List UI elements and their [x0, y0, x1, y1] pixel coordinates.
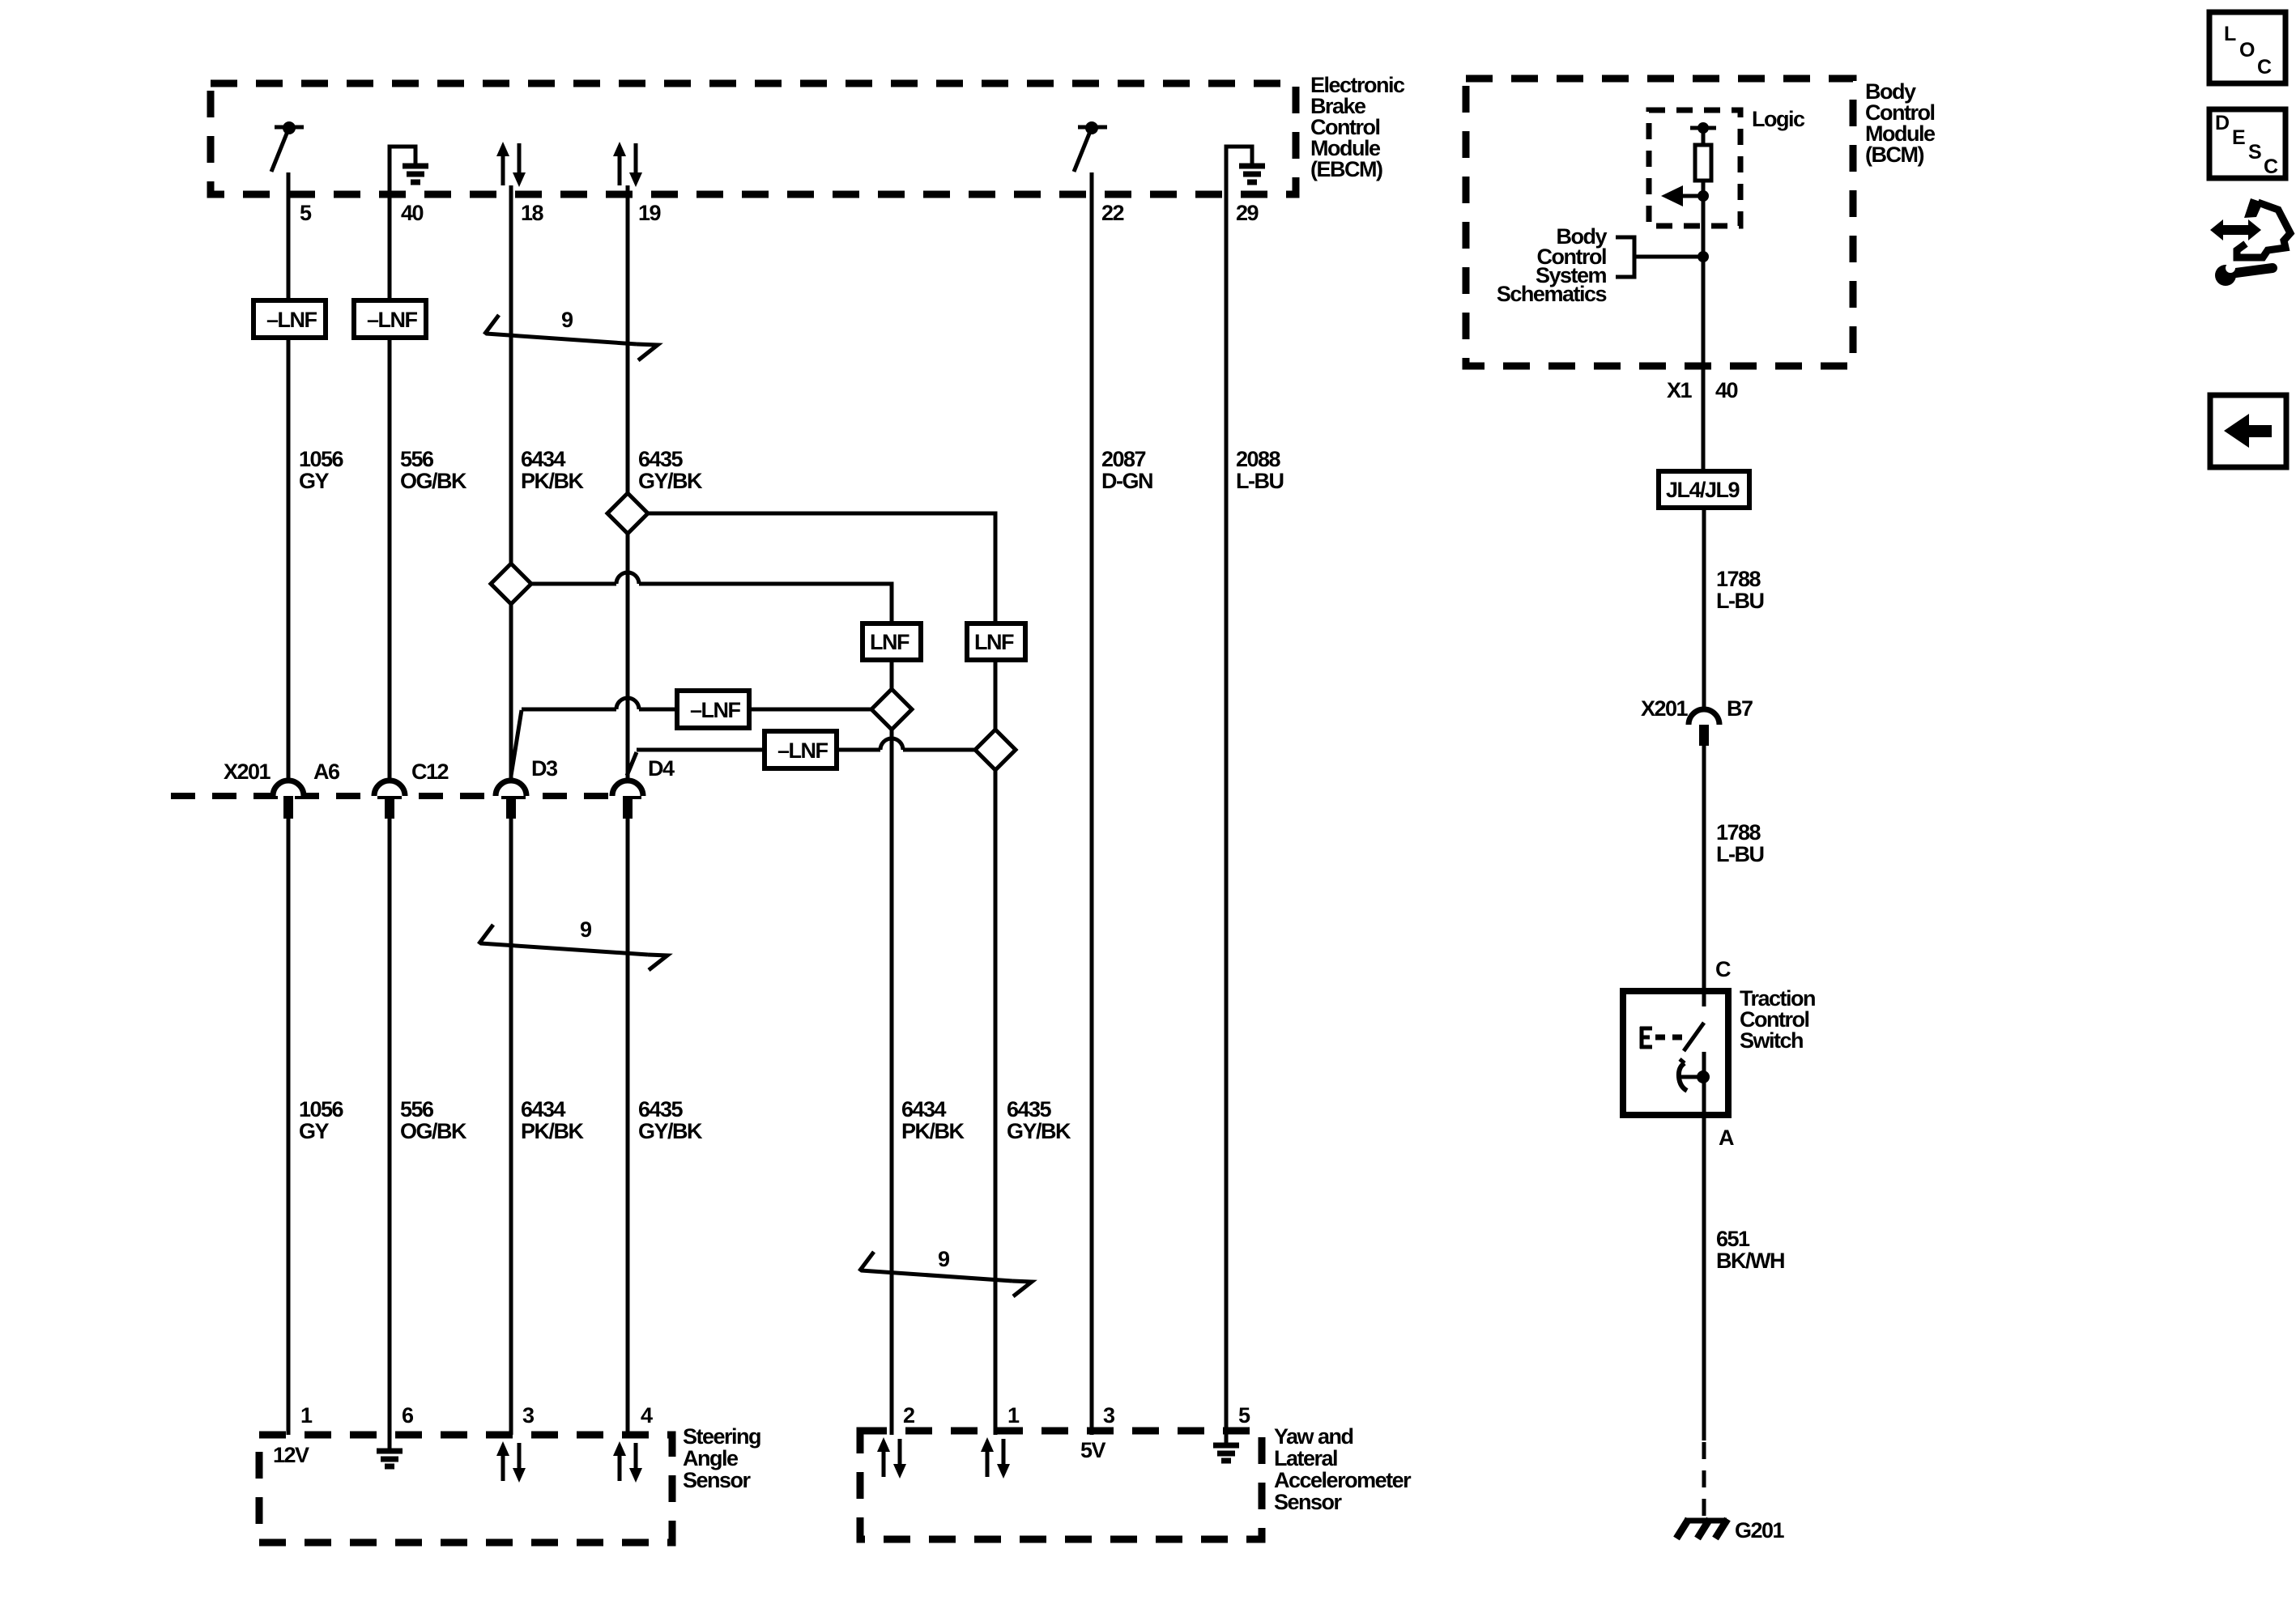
connector X1 pin 40 labels	[1667, 378, 1738, 402]
svg-text:29: 29	[1236, 201, 1259, 225]
bidirectional signal arrows EBCM pin 19	[613, 142, 642, 187]
svg-text:651: 651	[1716, 1227, 1750, 1251]
wire label 6434 PK/BK (yaw branch)	[901, 1097, 965, 1143]
wire label 6435 GY/BK (lower)	[638, 1097, 703, 1143]
bidirectional signal arrows steering pin 3	[496, 1441, 526, 1483]
svg-text:G201: G201	[1735, 1518, 1785, 1543]
wire left branch down to yaw sensor pin 2	[890, 660, 894, 1435]
ground steering pin 6	[377, 1451, 403, 1466]
svg-text:40: 40	[1715, 378, 1738, 402]
svg-text:9: 9	[938, 1247, 950, 1271]
svg-text:C: C	[1715, 957, 1731, 981]
svg-text:D: D	[2215, 112, 2230, 134]
svg-text:X201: X201	[1641, 696, 1689, 721]
ground EBCM pin 29	[1226, 147, 1265, 194]
wire right branch down to yaw sensor pin 1	[994, 660, 998, 1435]
arrow output (logic)	[1661, 185, 1709, 206]
node (logic supply bar)	[1690, 122, 1716, 134]
svg-text:1056: 1056	[299, 447, 344, 471]
svg-text:S: S	[2248, 141, 2262, 164]
splice diamond left (wire to yaw 2)	[871, 689, 912, 730]
wire label 1788 L-BU (lower)	[1716, 820, 1763, 866]
svg-text:–LNF: –LNF	[367, 308, 418, 332]
switch EBCM pin 5	[271, 121, 304, 172]
icon LOC	[2209, 12, 2285, 83]
svg-text:L-BU: L-BU	[1236, 469, 1283, 493]
wire label 6434 PK/BK (top)	[521, 447, 585, 493]
svg-text:6435: 6435	[638, 447, 684, 471]
svg-text:Sensor: Sensor	[1274, 1490, 1343, 1514]
svg-text:LNF: LNF	[870, 630, 909, 654]
svg-text:GY: GY	[299, 469, 330, 493]
module box EBCM (Electronic Brake Control Module)	[211, 73, 1405, 194]
svg-text:1788: 1788	[1716, 567, 1761, 591]
svg-text:5: 5	[1238, 1403, 1250, 1428]
wire label 2087 D-GN	[1101, 447, 1152, 493]
wire 6435 GY/BK (EBCM 19 to X201 D4)	[626, 185, 630, 781]
icon DESC	[2209, 109, 2285, 178]
wire label 651 BK/WH	[1716, 1227, 1784, 1273]
icon back arrow	[2210, 395, 2286, 467]
svg-text:2088: 2088	[1236, 447, 1281, 471]
svg-text:PK/BK: PK/BK	[521, 469, 585, 493]
splice diamond right (wire to yaw 1)	[975, 730, 1016, 770]
svg-text:19: 19	[638, 201, 662, 225]
wire 2087 D-GN (EBCM 22 to yaw sensor 3)	[1090, 172, 1094, 1435]
wire branch 6435 (splice to right LNF column)	[645, 513, 995, 623]
svg-text:9: 9	[561, 308, 573, 332]
svg-text:22: 22	[1101, 201, 1124, 225]
svg-text:Schematics: Schematics	[1497, 282, 1607, 306]
connector X201 A6	[273, 760, 340, 819]
svg-text:6434: 6434	[521, 1097, 566, 1121]
bidirectional signal arrows EBCM pin 18	[496, 142, 526, 187]
node (junction to body control system schematics)	[1698, 251, 1709, 262]
connector X201 B7	[1641, 696, 1753, 746]
wire label 1056 GY (lower)	[299, 1097, 344, 1143]
svg-text:E: E	[2232, 126, 2246, 149]
svg-text:1056: 1056	[299, 1097, 344, 1121]
wire 1056 GY (X201 A6 to steering sensor 1)	[287, 819, 291, 1435]
wire (branch to body control system schematics)	[1634, 255, 1703, 259]
wire label 6435 GY/BK (yaw branch)	[1007, 1097, 1071, 1143]
resistor (BCM logic pull-up)	[1695, 145, 1711, 181]
svg-text:JL4/JL9: JL4/JL9	[1666, 478, 1740, 502]
connector X201 D4	[612, 756, 675, 819]
svg-text:4: 4	[641, 1403, 653, 1428]
option box JL4/JL9	[1659, 471, 1749, 508]
switch contact (traction control switch)	[1679, 1059, 1710, 1091]
svg-text:Sensor: Sensor	[683, 1468, 752, 1492]
wire D3 branch (slant + horizontal through -LNF to left diamond)	[511, 698, 873, 776]
wire label 556 OG/BK (lower)	[400, 1097, 467, 1143]
wire 6434 PK/BK (EBCM 18 to X201 D3)	[509, 185, 513, 781]
svg-text:2087: 2087	[1101, 447, 1146, 471]
svg-text:556: 556	[400, 447, 434, 471]
svg-text:L-BU: L-BU	[1716, 842, 1763, 866]
wire label 1788 L-BU (upper)	[1716, 567, 1763, 613]
wire 1788 L-BU (X201 B7 to traction control switch C)	[1702, 746, 1706, 1006]
ground EBCM pin 40	[390, 147, 428, 194]
svg-text:LNF: LNF	[974, 630, 1014, 654]
svg-text:D-GN: D-GN	[1101, 469, 1152, 493]
svg-text:A: A	[1719, 1126, 1734, 1150]
bidirectional signal arrows yaw pin 2	[877, 1437, 906, 1479]
svg-text:GY/BK: GY/BK	[638, 1119, 703, 1143]
svg-text:GY: GY	[299, 1119, 330, 1143]
wire 6435 GY/BK (X201 D4 to steering sensor 4)	[626, 819, 630, 1435]
bus marker 9 (wires 6434/6435 top)	[484, 308, 658, 360]
svg-text:(BCM): (BCM)	[1865, 143, 1923, 167]
svg-text:556: 556	[400, 1097, 434, 1121]
svg-text:C12: C12	[411, 760, 449, 784]
wire 6434 PK/BK (X201 D3 to steering sensor 3)	[509, 819, 513, 1435]
option box -LNF (D3 branch)	[677, 691, 749, 728]
wire label 6434 PK/BK (lower)	[521, 1097, 585, 1143]
wire 556 OG/BK (EBCM 40 to X201 C12)	[388, 162, 392, 781]
svg-text:O: O	[2239, 39, 2255, 62]
bus marker 9 (wires 6434/6435 middle)	[479, 917, 667, 970]
svg-text:6435: 6435	[638, 1097, 684, 1121]
svg-text:1: 1	[1007, 1403, 1020, 1428]
svg-text:–LNF: –LNF	[777, 738, 829, 763]
switch actuator E with dashed link	[1640, 1027, 1682, 1049]
wire 1056 GY (EBCM 5 to X201 A6)	[287, 172, 291, 781]
bidirectional signal arrows steering pin 4	[613, 1441, 642, 1483]
svg-text:BK/WH: BK/WH	[1716, 1249, 1784, 1273]
svg-text:C: C	[2264, 155, 2278, 178]
ground G201	[1676, 1518, 1785, 1543]
svg-text:D4: D4	[648, 756, 675, 781]
svg-text:L: L	[2224, 23, 2236, 45]
wire 1788 L-BU (logic to X1-40)	[1702, 181, 1706, 471]
svg-text:–LNF: –LNF	[266, 308, 317, 332]
wire label 1056 GY (top)	[299, 447, 344, 493]
svg-text:1788: 1788	[1716, 820, 1761, 845]
svg-text:6434: 6434	[901, 1097, 947, 1121]
svg-text:X201: X201	[224, 760, 271, 784]
option box LNF (left branch)	[863, 623, 921, 660]
svg-text:2: 2	[903, 1403, 914, 1428]
svg-text:C: C	[2257, 56, 2272, 79]
svg-text:A6: A6	[313, 760, 340, 784]
connector X201 C12	[374, 760, 449, 819]
svg-text:6435: 6435	[1007, 1097, 1052, 1121]
svg-text:5: 5	[300, 201, 312, 225]
svg-text:18: 18	[521, 201, 544, 225]
wire 1788 L-BU (JL4/JL9 to X201 B7)	[1702, 508, 1706, 709]
wire 556 OG/BK (X201 C12 to steering sensor 6)	[388, 819, 392, 1450]
connector X201 D3	[496, 756, 558, 819]
splice diamond on wire 6434	[491, 564, 531, 604]
wire D4 branch (slant + horizontal through -LNF, hops left wire, to right diamond)	[627, 738, 977, 776]
bus marker 9 (yaw branch wires bottom)	[859, 1247, 1032, 1296]
wire (logic internal)	[1702, 128, 1706, 145]
option box LNF (right branch)	[967, 623, 1025, 660]
svg-text:9: 9	[580, 917, 592, 942]
option box -LNF (wire 556)	[354, 300, 426, 338]
svg-text:GY/BK: GY/BK	[638, 469, 703, 493]
svg-text:OG/BK: OG/BK	[400, 1119, 467, 1143]
svg-text:PK/BK: PK/BK	[521, 1119, 585, 1143]
wire label 556 OG/BK (top)	[400, 447, 467, 493]
svg-text:(EBCM): (EBCM)	[1310, 157, 1382, 181]
svg-text:GY/BK: GY/BK	[1007, 1119, 1071, 1143]
icon connector end view tool (double arrow, shell outline, wrench)	[2210, 198, 2290, 286]
switch box Traction Control Switch	[1623, 986, 1815, 1115]
svg-text:6434: 6434	[521, 447, 566, 471]
ground yaw pin 5	[1213, 1445, 1239, 1461]
svg-text:Angle: Angle	[683, 1446, 739, 1470]
svg-text:D3: D3	[531, 756, 558, 781]
wire (dashed lead to G201)	[1702, 1442, 1706, 1521]
svg-text:Steering: Steering	[683, 1424, 760, 1449]
sensor box Steering Angle Sensor	[259, 1424, 760, 1543]
svg-text:12V: 12V	[273, 1443, 309, 1467]
svg-text:5V: 5V	[1080, 1438, 1106, 1462]
svg-text:3: 3	[1103, 1403, 1115, 1428]
svg-text:Lateral: Lateral	[1274, 1446, 1337, 1470]
wire label 2088 L-BU	[1236, 447, 1283, 493]
inline connector X201 dashed line	[171, 793, 641, 799]
option box -LNF (D4 branch)	[765, 731, 837, 768]
svg-text:6: 6	[402, 1403, 414, 1428]
module box BCM (Body Control Module)	[1466, 79, 1936, 366]
svg-text:B7: B7	[1727, 696, 1753, 721]
svg-text:L-BU: L-BU	[1716, 589, 1763, 613]
svg-text:PK/BK: PK/BK	[901, 1119, 965, 1143]
svg-text:OG/BK: OG/BK	[400, 469, 467, 493]
option box -LNF (wire 1056)	[253, 300, 326, 338]
svg-text:3: 3	[522, 1403, 535, 1428]
label Body Control System Schematics	[1497, 224, 1608, 306]
bidirectional signal arrows yaw pin 1	[981, 1437, 1010, 1479]
splice diamond on wire 6435	[607, 493, 648, 534]
svg-text:1: 1	[300, 1403, 313, 1428]
bracket (body control system schematics)	[1616, 237, 1634, 277]
switch EBCM pin 22	[1074, 121, 1107, 172]
wire 2088 L-BU (EBCM 29 to yaw sensor 5)	[1225, 162, 1229, 1445]
svg-text:X1: X1	[1667, 378, 1693, 402]
svg-text:Logic: Logic	[1752, 107, 1805, 131]
wire label 6435 GY/BK (top)	[638, 447, 703, 493]
wire branch 6434 (splice to left LNF column, hops wire 6435)	[529, 572, 892, 623]
svg-text:Switch: Switch	[1740, 1028, 1803, 1053]
svg-text:40: 40	[401, 201, 424, 225]
svg-text:–LNF: –LNF	[690, 698, 741, 722]
svg-text:Accelerometer: Accelerometer	[1274, 1468, 1412, 1492]
switch blade (traction control switch)	[1684, 1023, 1704, 1051]
logic box (BCM)	[1649, 107, 1805, 226]
svg-text:Yaw and: Yaw and	[1274, 1424, 1353, 1449]
wire 651 BK/WH (traction control switch A to G201)	[1702, 1052, 1706, 1440]
sensor box Yaw and Lateral Accelerometer Sensor	[860, 1424, 1412, 1539]
